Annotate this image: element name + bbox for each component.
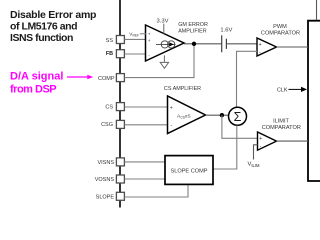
svg-text:COMPARATOR: COMPARATOR <box>261 31 300 37</box>
svg-text:VOSNS: VOSNS <box>95 177 115 183</box>
svg-text:+: + <box>148 33 151 38</box>
pin VISNS <box>97 158 124 166</box>
node: CS amp output junction dot <box>220 113 224 117</box>
wire VOSNS to slope comp <box>124 178 165 180</box>
CS amplifier U2 triangle <box>168 96 206 134</box>
svg-text:FB: FB <box>106 51 113 57</box>
wire CS to CS amplifier <box>124 106 168 108</box>
GM error amplifier U1 triangle <box>146 25 185 61</box>
svg-text:VISNS: VISNS <box>97 160 114 166</box>
wire SLOPE to slope comp bottom <box>124 185 188 198</box>
pin SS <box>106 36 125 44</box>
battery 1.6V <box>222 35 227 52</box>
wire battery to PWM comparator + <box>226 43 257 45</box>
pin CSG <box>101 120 124 128</box>
pin CS <box>105 103 124 111</box>
svg-text:SLOPE: SLOPE <box>96 195 115 201</box>
wire FB to GM amp <box>124 53 146 55</box>
svg-text:CS AMPLIFIER: CS AMPLIFIER <box>164 86 201 92</box>
wire VILIM to ILIMIT - input <box>254 145 258 160</box>
wire slope comp output to summing node bottom <box>213 125 237 169</box>
annotation: Disable Error amp of LM5176 and ISNS function <box>10 9 96 44</box>
svg-text:+: + <box>170 105 173 111</box>
svg-text:1.6V: 1.6V <box>220 28 232 34</box>
svg-text:CSG: CSG <box>101 122 113 128</box>
svg-text:Disable Error amp: Disable Error amp <box>10 9 96 21</box>
svg-text:3.3V: 3.3V <box>157 19 169 25</box>
ILIMIT comparator label <box>262 119 301 132</box>
summing node (sigma) <box>229 107 247 125</box>
CS amplifier polarity marks <box>170 105 173 128</box>
svg-text:AMPLIFIER: AMPLIFIER <box>178 29 207 35</box>
3.3V supply wire <box>163 24 165 34</box>
wire VISNS to slope comp <box>124 161 165 163</box>
svg-text:GM ERROR: GM ERROR <box>178 22 208 28</box>
pin SLOPE <box>96 192 125 200</box>
pin COMP <box>98 74 124 83</box>
ILIMIT polarity marks <box>259 136 262 149</box>
wire summing node to PWM - input <box>237 51 258 107</box>
svg-text:+: + <box>259 136 262 142</box>
GM error amplifier label <box>178 22 208 35</box>
svg-text:PWM: PWM <box>273 24 287 30</box>
svg-text:Σ: Σ <box>234 110 242 124</box>
ILIMIT comparator triangle <box>258 132 277 150</box>
CLK arrow into logic block <box>289 87 308 92</box>
wire PWM output to logic block <box>277 46 309 48</box>
slope comp block <box>165 156 213 185</box>
PWM comparator polarity marks <box>259 42 262 56</box>
svg-text:of LM5176 and: of LM5176 and <box>10 21 77 33</box>
magenta pointer arrow to COMP <box>67 75 93 80</box>
wire into top of right block <box>316 0 318 20</box>
wire COMP to GM amp output node <box>124 44 194 78</box>
wire junction to ILIMIT + input <box>222 115 258 138</box>
pin VOSNS <box>95 175 125 183</box>
wire ILIMIT output to logic block <box>277 140 309 142</box>
svg-text:+: + <box>259 42 262 48</box>
chip boundary (left edge of LM5176 block) <box>119 0 121 208</box>
svg-text:ISNS function: ISNS function <box>10 32 73 44</box>
current sink down-arrow under GM amp <box>160 55 168 68</box>
pin FB <box>106 50 125 58</box>
GM amp internal current source <box>156 41 176 48</box>
svg-text:+: + <box>148 39 151 44</box>
wire CS amp output to summing node <box>206 114 229 116</box>
svg-text:COMP: COMP <box>98 76 115 82</box>
GM amp input polarity marks <box>148 33 151 59</box>
wire CSG to CS amplifier <box>124 124 168 126</box>
node: COMP junction dot <box>192 42 196 46</box>
svg-text:VILIM: VILIM <box>248 162 261 168</box>
svg-text:CLK: CLK <box>277 87 288 93</box>
svg-text:D/A signal: D/A signal <box>10 71 63 83</box>
right block (logic block) <box>308 21 320 181</box>
PWM comparator label <box>261 24 300 37</box>
svg-text:COMPARATOR: COMPARATOR <box>262 125 301 131</box>
wire VREF to GM amp <box>140 33 146 35</box>
annotation: D/A signal from DSP (magenta) <box>10 71 63 96</box>
svg-text:SS: SS <box>106 38 114 44</box>
svg-text:from DSP: from DSP <box>10 84 56 96</box>
svg-text:SLOPE COMP: SLOPE COMP <box>171 168 208 174</box>
PWM comparator triangle <box>257 38 277 56</box>
svg-text:CS: CS <box>105 105 113 111</box>
svg-text:ILIMIT: ILIMIT <box>273 119 289 125</box>
wire GM amp output to 1.6V battery <box>184 43 222 45</box>
wire SS to GM amp <box>124 38 146 40</box>
